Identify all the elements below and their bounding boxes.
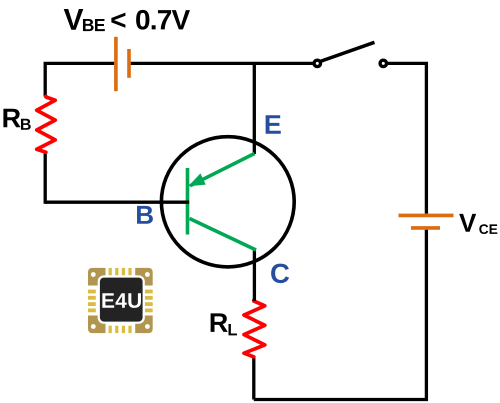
label 0.7V [136,10,190,30]
label RL subscript L [229,324,237,335]
wire top rail mid [131,62,313,65]
logo screw hole bottom-left [91,324,96,329]
logo corner bracket bottom-left [88,316,106,334]
label RB subscript B [21,119,31,130]
logo text E4U [102,293,141,308]
resistor RB zigzag [37,96,56,152]
label VCE main V [459,214,476,232]
wire left vertical below RB [44,152,47,204]
logo screw hole top-right [145,272,150,277]
battery B2 short plate [411,226,440,230]
wire switch to right rail with corner [388,63,426,213]
label RL main R [211,313,228,332]
transistor Q1 collector line [190,219,257,251]
battery B1 short plate [127,49,131,78]
switch S1 left contact [314,60,320,66]
label VCE subscript CE [479,224,497,234]
wire RL bottom stub [252,357,255,400]
logo pins right [145,290,153,313]
logo chip body [100,278,143,322]
logo screw hole bottom-right [145,324,150,329]
switch S1 right contact [380,60,386,66]
logo screw hole top-left [91,272,96,277]
wire emitter branch to node E [253,63,256,154]
label RB main R [3,109,20,128]
transistor Q1 body circle [161,137,294,267]
transistor Q1 emitter arrowhead [188,173,206,186]
logo pins bottom [109,326,132,333]
label node B [137,206,153,224]
battery B2 long plate (VCE) [399,214,454,218]
wire right rail lower and bottom rail [254,230,427,400]
logo chip white border [98,275,145,323]
transistor Q1 emitter line [190,154,255,186]
label VBE subscript BE [83,19,105,31]
logo corner bracket bottom-right [135,316,153,334]
label node C [271,264,289,283]
wire collector stub from node C [253,249,256,302]
switch S1 lever [320,42,375,61]
resistor RL zigzag [244,300,265,357]
logo corner bracket top-right [135,268,153,286]
label node E [266,115,281,134]
logo corner bracket top-left [88,268,106,286]
logo pins left [88,290,96,313]
label VBE main V [64,9,84,30]
wire top-left segment with corner to RB [45,63,114,96]
transistor Q1 base bar [186,168,190,235]
wire base lead to node B [45,201,189,204]
logo pins top [109,268,132,275]
battery B1 long plate (VBE) [114,37,118,91]
label less-than sign [111,13,125,28]
